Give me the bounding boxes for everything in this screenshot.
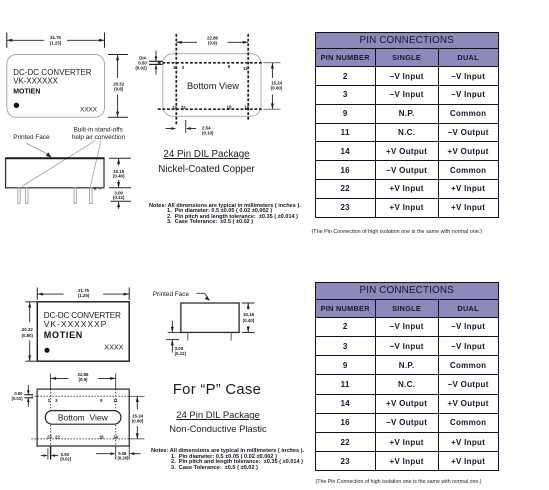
leader printed face (P) bbox=[197, 293, 208, 297]
pin 1 dot marker bbox=[14, 103, 19, 108]
pin stub below rect left (P) bbox=[50, 446, 52, 460]
svg-text:22: 22 bbox=[55, 434, 60, 439]
svg-text:22: 22 bbox=[181, 105, 186, 110]
dim 5.08 bottom (P) bbox=[96, 446, 141, 461]
stand-off nub bbox=[94, 188, 97, 190]
svg-text:(0.60): (0.60) bbox=[132, 419, 144, 424]
leader stand-offs left bbox=[23, 141, 96, 186]
leader printed face bbox=[26, 143, 48, 154]
svg-text:Printed Face: Printed Face bbox=[13, 134, 50, 141]
svg-text:(0.9): (0.9) bbox=[208, 41, 218, 46]
dim 20.32 left of front view (P case) bbox=[22, 302, 38, 361]
side view pin 2 bbox=[26, 188, 28, 204]
pin column right dashed bbox=[247, 34, 249, 121]
svg-text:(0.60): (0.60) bbox=[271, 86, 283, 91]
svg-text:3: 3 bbox=[55, 398, 58, 403]
dim 20.32 right of front view bbox=[108, 55, 128, 118]
side view case (copper) bbox=[6, 158, 104, 187]
heading Nickel-Coated Copper bbox=[145, 164, 268, 175]
svg-text:(1.25): (1.25) bbox=[50, 40, 62, 45]
dim 22.86 top of bottom view (P case) bbox=[51, 372, 116, 389]
package front view (P case) bbox=[37, 302, 129, 361]
svg-text:(0.40): (0.40) bbox=[113, 173, 125, 178]
svg-text:(0.40): (0.40) bbox=[243, 318, 255, 323]
notes block (P) bbox=[151, 449, 304, 472]
side view case (P) bbox=[181, 303, 239, 332]
dim DIA 0.50 pin diameter (copper case) bbox=[135, 51, 163, 75]
side view pin left (P) bbox=[187, 332, 189, 340]
package front view (copper case) bbox=[7, 55, 105, 118]
heading 24 Pin DIL Package (copper) bbox=[145, 149, 268, 160]
leader stand-offs right bbox=[90, 141, 101, 187]
side view pin 4 bbox=[90, 188, 93, 204]
svg-text:(0.02): (0.02) bbox=[135, 66, 147, 71]
side view pin right (P) bbox=[230, 332, 232, 340]
svg-text:VK-XXXXXX: VK-XXXXXX bbox=[13, 77, 58, 86]
dim 3.00 pin length (copper) bbox=[111, 191, 132, 209]
svg-text:Printed Face: Printed Face bbox=[153, 291, 190, 298]
svg-text:(0.9): (0.9) bbox=[78, 377, 88, 382]
svg-text:(0.02): (0.02) bbox=[60, 457, 72, 462]
svg-text:16: 16 bbox=[99, 434, 104, 439]
pin row top dashed bbox=[158, 62, 264, 64]
svg-text:9: 9 bbox=[228, 64, 231, 69]
dim 2.54 pin pitch (copper case) bbox=[166, 120, 215, 136]
heading 24 Pin DIL Package (P) bbox=[156, 410, 280, 421]
svg-text:Bottom View: Bottom View bbox=[58, 413, 109, 423]
dim 31.75 top of front view (P case) bbox=[37, 288, 129, 300]
svg-text:(0.10): (0.10) bbox=[202, 131, 214, 136]
table note (P) bbox=[316, 479, 482, 485]
svg-text:(0.02): (0.02) bbox=[12, 396, 24, 401]
svg-text:23: 23 bbox=[47, 434, 52, 439]
dim 10.16 side view (copper) bbox=[109, 158, 131, 188]
svg-text:XXXX: XXXX bbox=[80, 107, 98, 114]
svg-text:3: 3 bbox=[182, 65, 185, 70]
svg-text:23: 23 bbox=[172, 105, 177, 110]
svg-text:11: 11 bbox=[243, 66, 248, 71]
svg-text:9: 9 bbox=[100, 398, 103, 403]
svg-text:VK-XXXXXXP: VK-XXXXXXP bbox=[44, 319, 107, 329]
svg-text:14: 14 bbox=[244, 105, 249, 110]
svg-text:(0.80): (0.80) bbox=[22, 333, 34, 338]
heading For P Case bbox=[150, 382, 284, 398]
svg-text:(0.12): (0.12) bbox=[175, 351, 187, 356]
dim 15.24 right of bottom view bbox=[264, 63, 283, 109]
dim 10.16 side view (P) bbox=[242, 303, 255, 332]
notes block (copper) bbox=[149, 204, 301, 225]
svg-text:DC-DC CONVERTER: DC-DC CONVERTER bbox=[13, 68, 92, 77]
dim 0.50 pin diameter left (P) bbox=[12, 385, 34, 407]
dim 22.86 top of bottom view bbox=[176, 35, 248, 45]
dim 0.50 bottom (P) bbox=[41, 452, 72, 462]
svg-text:14: 14 bbox=[113, 434, 118, 439]
svg-text:XXXX: XXXX bbox=[104, 343, 123, 352]
pin connections table (P case) bbox=[315, 282, 499, 471]
svg-text:10.16: 10.16 bbox=[243, 312, 255, 317]
heading Non-Conductive Plastic bbox=[156, 423, 280, 434]
bottom view outline (copper case) bbox=[163, 54, 261, 117]
dim 31.75 top of front view (copper case) bbox=[7, 33, 105, 48]
side view pin 3 bbox=[74, 188, 76, 204]
stadium Bottom View (P) bbox=[45, 411, 121, 425]
svg-text:Built-in stand-offs: Built-in stand-offs bbox=[74, 127, 123, 134]
bottom view outline (P case) bbox=[37, 389, 129, 446]
table note (copper) bbox=[312, 229, 483, 235]
svg-text:16: 16 bbox=[227, 105, 232, 110]
dim 15.24 right of bottom view (P) bbox=[130, 396, 145, 439]
dim 3.00 stand-off (P) bbox=[166, 321, 186, 356]
pin column left dotted (P) bbox=[50, 389, 52, 446]
svg-text:20.32: 20.32 bbox=[22, 327, 34, 332]
pin row bottom dotted (P) bbox=[32, 438, 131, 440]
svg-text:11: 11 bbox=[113, 398, 118, 403]
pin 1 dot marker (P) bbox=[45, 348, 50, 353]
svg-text:(0.20): (0.20) bbox=[118, 456, 130, 461]
pin column left dashed bbox=[175, 34, 177, 125]
svg-text:MOTIEN: MOTIEN bbox=[44, 330, 83, 340]
side view pin 1 bbox=[18, 188, 20, 204]
pin row top dotted (P) bbox=[32, 395, 131, 397]
svg-text:(0.8): (0.8) bbox=[114, 87, 124, 92]
pin row bottom dashed bbox=[158, 108, 264, 110]
svg-text:Bottom View: Bottom View bbox=[187, 81, 239, 91]
svg-text:(0.12): (0.12) bbox=[113, 195, 125, 200]
svg-text:help air convection: help air convection bbox=[72, 134, 126, 141]
svg-text:(1.25): (1.25) bbox=[78, 293, 90, 298]
pin connections table (copper case) bbox=[315, 32, 499, 218]
pin column right dotted (P) bbox=[115, 389, 117, 446]
svg-text:MOTIEN: MOTIEN bbox=[13, 89, 40, 96]
